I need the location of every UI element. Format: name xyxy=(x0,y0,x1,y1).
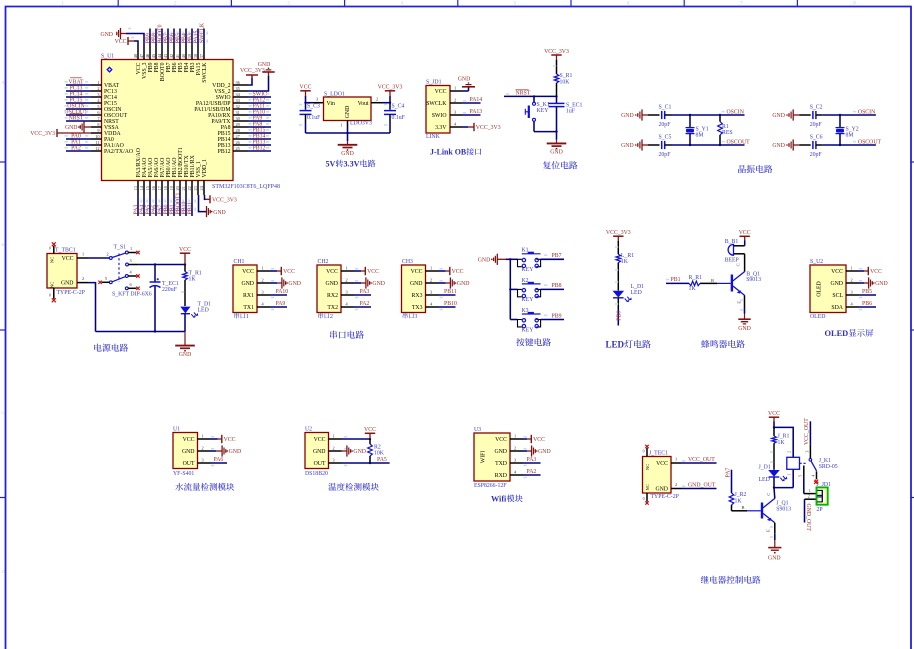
wire U1 pin 36 VDD_2 to VCC_3V3 xyxy=(248,75,252,85)
U1 pin 26 PB13 xyxy=(218,139,271,149)
U1 pin 28 PB15 xyxy=(218,127,271,137)
svg-text:8: 8 xyxy=(97,122,99,127)
svg-text:GND: GND xyxy=(241,281,254,287)
ground symbol at CH3 xyxy=(450,277,469,288)
wire U1 pin 48 VCC to VCC port xyxy=(128,38,138,45)
U1 pin 14 PA4/AO xyxy=(139,158,148,216)
svg-text:PB9: PB9 xyxy=(552,313,562,319)
capacitor S_EC1 1uF xyxy=(549,96,583,132)
svg-text:20pF: 20pF xyxy=(810,122,823,128)
svg-text:45: 45 xyxy=(151,54,156,58)
U1 pin 36 VDD_2 xyxy=(212,80,248,89)
svg-text:1: 1 xyxy=(851,266,853,271)
svg-text:S_C1: S_C1 xyxy=(659,105,672,111)
power port VCC (5V to 3.3V circuit) xyxy=(300,85,312,96)
svg-text:NC: NC xyxy=(645,464,650,470)
svg-text:U1: U1 xyxy=(173,427,180,433)
connector S_JD1 LINK (J-Link OB) xyxy=(426,80,462,140)
svg-text:PB0: PB0 xyxy=(616,311,622,321)
wire S_U2 pin 3 net PB5 xyxy=(859,289,877,298)
U1 pin 10 PA0 xyxy=(65,133,114,143)
resistor T_R1 1K xyxy=(181,265,202,307)
svg-text:8M: 8M xyxy=(696,133,704,139)
wire U1 pin 1 to VCC xyxy=(211,437,222,439)
title J-Link OB interface xyxy=(430,148,481,157)
svg-text:5: 5 xyxy=(105,276,107,281)
svg-text:GND: GND xyxy=(325,281,338,287)
U1 pin 16 PA6/AO xyxy=(151,158,160,216)
U1 pin 11 PA1/AO xyxy=(65,139,124,149)
svg-text:PB8: PB8 xyxy=(552,283,562,289)
wire VCC node (relay) xyxy=(773,422,793,458)
svg-text:GND: GND xyxy=(288,281,301,287)
svg-text:LINK: LINK xyxy=(426,134,441,140)
svg-text:S_LDO1: S_LDO1 xyxy=(324,91,345,97)
svg-text:ESP8266-12F: ESP8266-12F xyxy=(474,483,507,489)
power port VCC_3V3 (reset circuit) xyxy=(544,49,569,60)
title relay control circuit xyxy=(701,576,761,584)
capacitor T_EC1 220uF xyxy=(150,265,179,333)
svg-text:S_K1: S_K1 xyxy=(537,102,550,108)
svg-text:29: 29 xyxy=(236,122,240,127)
svg-text:VCC: VCC xyxy=(495,437,507,443)
svg-text:VCC_3V3: VCC_3V3 xyxy=(378,85,403,91)
svg-text:E: E xyxy=(736,301,741,304)
wire K2 to net PB8 xyxy=(541,283,564,289)
svg-text:PB12: PB12 xyxy=(253,145,266,151)
svg-text:PA14: PA14 xyxy=(470,97,483,103)
svg-text:38: 38 xyxy=(193,54,198,58)
U1 pin 5 OSCIN xyxy=(65,103,123,113)
svg-text:VCC: VCC xyxy=(314,437,326,443)
power port VCC_3V3 (LED circuit) xyxy=(606,230,631,241)
U1 pin 44 BOOT0 xyxy=(157,24,166,81)
svg-text:DS18B20: DS18B20 xyxy=(305,471,328,477)
svg-text:1: 1 xyxy=(82,252,84,257)
svg-text:A: A xyxy=(1,81,5,86)
ground symbol at S_U2 xyxy=(869,277,888,288)
svg-text:J_TEC1: J_TEC1 xyxy=(649,451,668,457)
title OLED display xyxy=(825,329,874,338)
U1 pin 25 PB12 xyxy=(218,145,271,155)
svg-text:PB5: PB5 xyxy=(862,289,872,295)
svg-text:42: 42 xyxy=(169,54,174,58)
svg-text:0.1uF: 0.1uF xyxy=(392,115,406,121)
transistor J_Q1 S9013 xyxy=(762,493,791,532)
U1 pin 15 PA5/AO xyxy=(145,158,154,216)
svg-text:B: B xyxy=(711,278,714,283)
svg-text:TYPE-C-2P: TYPE-C-2P xyxy=(57,290,85,296)
svg-text:9: 9 xyxy=(97,128,99,133)
svg-text:1: 1 xyxy=(454,86,456,91)
wire CH3 pin 4 net PB10 xyxy=(439,301,457,310)
svg-text:VCC: VCC xyxy=(533,437,545,443)
svg-text:S_U2: S_U2 xyxy=(810,259,823,265)
svg-text:GND: GND xyxy=(772,143,785,149)
wire LDO ground rail xyxy=(306,132,391,134)
svg-text:LDO3V3: LDO3V3 xyxy=(350,120,372,126)
svg-text:0: 0 xyxy=(49,294,51,298)
svg-text:PA3: PA3 xyxy=(527,457,537,463)
U1 pin 41 PB5 xyxy=(175,29,184,73)
svg-text:GND_OUT: GND_OUT xyxy=(805,504,811,532)
power port VCC_3V3 at U1 pin 24 xyxy=(210,195,237,203)
connector J_JD1 2P (green terminal) xyxy=(817,482,832,513)
svg-text:GND: GND xyxy=(100,32,113,38)
svg-text:SWCLK: SWCLK xyxy=(202,62,208,83)
resistor R1 RES (crystal 1) xyxy=(718,114,733,146)
power port VCC at U3 xyxy=(531,435,545,443)
U1 pin 48 VCC xyxy=(133,45,142,75)
wire J_D1 to Q1 collector node xyxy=(773,469,793,498)
title 5V to 3.3V circuit xyxy=(326,160,376,169)
svg-text:WIFI: WIFI xyxy=(481,451,487,464)
svg-text:GND: GND xyxy=(345,106,351,119)
svg-text:CH3: CH3 xyxy=(402,259,413,265)
svg-text:3.3V: 3.3V xyxy=(344,160,360,169)
svg-text:SRD-05: SRD-05 xyxy=(819,464,838,470)
wire key bus xyxy=(506,258,511,319)
no-ERC marker at T_S1 pin 6 xyxy=(136,287,139,290)
U1 pin 3 PC14 xyxy=(65,91,117,101)
svg-text:OUT: OUT xyxy=(314,461,326,467)
svg-text:PB10: PB10 xyxy=(444,301,457,307)
wire U2 pin 2 to GND xyxy=(342,449,348,451)
svg-text:S_C3: S_C3 xyxy=(307,103,320,109)
U1 pin 13 PA3/RX/AO xyxy=(133,148,142,216)
svg-text:39: 39 xyxy=(187,54,192,58)
svg-text:25: 25 xyxy=(236,146,240,151)
svg-text:T_TBC1: T_TBC1 xyxy=(55,247,76,253)
U1 pin 23 VSS_1 xyxy=(193,161,202,195)
capacitor S_C2 20pF with ground (crystal 2 OSCIN) xyxy=(772,105,876,128)
svg-text:GND: GND xyxy=(494,449,507,455)
svg-text:2: 2 xyxy=(97,86,99,91)
title buzzer circuit xyxy=(701,340,745,348)
ground symbol at U1 pin 8 VSSA xyxy=(65,121,91,132)
no-ERC marker at J_TEC1 top xyxy=(645,445,648,448)
connector T_TBC1 TYPE-C-2P xyxy=(47,246,85,299)
power port VCC at CH1 xyxy=(281,267,295,275)
wire S_LDO1 GND pin 1 xyxy=(340,121,348,135)
svg-text:3: 3 xyxy=(130,258,132,263)
crystal S_Y2 8M xyxy=(836,114,859,146)
svg-text:3: 3 xyxy=(346,290,348,295)
LED L_D1 xyxy=(613,284,645,302)
svg-text:TXD: TXD xyxy=(495,461,507,467)
svg-text:1K: 1K xyxy=(621,259,629,265)
svg-text:OLED: OLED xyxy=(825,329,849,338)
svg-text:GND: GND xyxy=(550,150,563,156)
svg-text:GND: GND xyxy=(410,281,423,287)
U1 pin 12 PA2/TX/AO xyxy=(65,145,134,155)
wire L_R1 to L_D1 xyxy=(615,263,618,291)
switch T_S1 S_KFT DIP-6X6 xyxy=(102,244,152,297)
wire CH1 pin 4 net PA9 xyxy=(270,301,287,310)
wire LED to ground rail xyxy=(184,314,186,332)
U1 pin 47 VSS_3 xyxy=(139,45,148,79)
svg-text:PB1: PB1 xyxy=(671,277,681,283)
svg-text:1K: 1K xyxy=(778,440,786,446)
svg-text:VCC: VCC xyxy=(179,247,191,253)
push button K3 KEY xyxy=(510,308,540,333)
svg-text:VCC_3V3: VCC_3V3 xyxy=(476,125,501,131)
svg-text:2: 2 xyxy=(454,98,456,103)
svg-text:10K: 10K xyxy=(374,451,385,457)
svg-text:1: 1 xyxy=(346,266,348,271)
wire T_S1 pin 3 to VCC node xyxy=(138,263,186,265)
svg-text:10: 10 xyxy=(95,134,99,139)
ground symbol at U1 YF-S401 xyxy=(222,445,241,456)
capacitor S_C3 0.1uF xyxy=(299,103,321,133)
svg-text:0: 0 xyxy=(643,449,645,453)
svg-text:J_R2: J_R2 xyxy=(735,492,747,498)
svg-text:5: 5 xyxy=(799,475,803,477)
svg-text:VCC: VCC xyxy=(326,269,338,275)
LED T_D1 xyxy=(180,301,211,317)
svg-text:2: 2 xyxy=(262,278,264,283)
svg-text:31: 31 xyxy=(236,110,240,115)
svg-text:2: 2 xyxy=(346,278,348,283)
wire relay pin 5 to J_JD1 pin 1 xyxy=(799,466,818,494)
svg-text:35: 35 xyxy=(236,86,240,91)
power port VCC (relay circuit) xyxy=(768,411,780,422)
wire L_D1 to net PB0 xyxy=(615,298,622,326)
svg-text:GND: GND xyxy=(738,326,751,332)
designator label 串口1 xyxy=(234,313,249,320)
wire U3 pin 2 to GND xyxy=(523,449,532,451)
title temperature detection module xyxy=(328,483,379,491)
ground symbol at U2 DS18B20 xyxy=(347,445,366,456)
svg-text:C: C xyxy=(766,493,771,496)
wire U1 pin 35 VSS_2 to GND xyxy=(248,72,269,91)
ground symbol GND (key circuit) xyxy=(478,254,506,265)
wire VCC_3V3 to S_R1 xyxy=(553,60,557,74)
wire CH2 pin 2 to GND xyxy=(354,281,366,283)
U1 pin 38 PA15 xyxy=(193,29,202,76)
svg-text:STM32F103C8T6_LQFP48: STM32F103C8T6_LQFP48 xyxy=(212,184,280,190)
svg-text:S_C6: S_C6 xyxy=(810,135,823,141)
svg-text:NC: NC xyxy=(49,257,54,263)
svg-text:SWIO: SWIO xyxy=(432,113,447,119)
svg-text:SDA: SDA xyxy=(831,305,843,311)
U1 pin 18 PB0/AO xyxy=(163,158,172,216)
svg-text:K2: K2 xyxy=(522,278,529,284)
svg-text:VCC_OUT: VCC_OUT xyxy=(804,418,810,445)
svg-text:PB6: PB6 xyxy=(862,301,872,307)
svg-text:4: 4 xyxy=(811,475,815,477)
svg-text:VDD_1: VDD_1 xyxy=(202,159,208,177)
svg-text:GND: GND xyxy=(61,281,74,287)
svg-text:SWCLK: SWCLK xyxy=(426,101,447,107)
svg-text:30: 30 xyxy=(236,116,240,121)
svg-text:BEEP: BEEP xyxy=(725,257,739,263)
wire U2 pin 1 to VCC node xyxy=(342,437,372,440)
ground symbol at U1 pin 23 xyxy=(207,206,226,217)
svg-text:5V: 5V xyxy=(326,160,336,169)
buzzer B_B1 BEEP xyxy=(725,239,739,263)
svg-text:GND: GND xyxy=(353,449,366,455)
svg-text:VCC_3V3: VCC_3V3 xyxy=(212,198,237,204)
svg-text:3: 3 xyxy=(316,97,318,102)
wire CH1 pin 3 net PA10 xyxy=(270,289,288,298)
U1 pin 29 PA8 xyxy=(221,121,271,131)
svg-text:2: 2 xyxy=(82,276,84,281)
U1 pin 24 VDD_1 xyxy=(199,159,208,195)
wire VCC_3V3 to L_R1 xyxy=(615,241,618,254)
relay J_K1 SRD-05 coil xyxy=(787,451,838,476)
svg-text:GND: GND xyxy=(478,257,491,263)
svg-text:VCC_OUT: VCC_OUT xyxy=(688,457,715,463)
svg-text:VCC_3V3: VCC_3V3 xyxy=(606,230,631,236)
wire Q1 emitter to GND xyxy=(740,295,745,313)
svg-text:GND: GND xyxy=(458,77,471,83)
power port VCC at S_U2 xyxy=(868,267,882,275)
svg-text:GND: GND xyxy=(621,113,634,119)
svg-text:B: B xyxy=(742,505,745,510)
svg-text:GND_OUT: GND_OUT xyxy=(688,483,716,489)
power port VCC (temperature module) xyxy=(364,427,376,439)
capacitor S_C4 0.1uF xyxy=(384,103,406,133)
svg-text:1: 1 xyxy=(675,457,677,462)
svg-text:GND: GND xyxy=(457,281,470,287)
capacitor S_C6 20pF with ground (crystal 2 OSCOUT) xyxy=(772,135,881,158)
U1 pin 17 PA7/AO xyxy=(157,158,166,216)
wire K1 to net PB7 xyxy=(541,253,564,259)
svg-text:VCC: VCC xyxy=(300,85,312,91)
resistor R_R1 1K xyxy=(689,275,703,292)
svg-text:1: 1 xyxy=(809,489,811,493)
power port VCC_3V3 at U1 pin 36 xyxy=(240,68,265,78)
svg-text:LED: LED xyxy=(606,340,625,350)
svg-text:RX3: RX3 xyxy=(412,293,423,299)
svg-text:OUT: OUT xyxy=(183,461,195,467)
svg-text:48: 48 xyxy=(133,54,138,58)
wire S_JD1 pin 2 net PA14 xyxy=(462,97,482,103)
svg-text:U2: U2 xyxy=(305,427,312,433)
ground symbol GND (relay driver) xyxy=(768,540,781,562)
U1 pin 19 PB1/AO xyxy=(169,158,178,216)
svg-text:VCC: VCC xyxy=(367,269,379,275)
svg-text:1: 1 xyxy=(340,122,342,127)
svg-text:10K: 10K xyxy=(560,79,571,85)
svg-text:3.3V: 3.3V xyxy=(435,125,447,131)
designator label 串口2 xyxy=(318,313,333,320)
svg-text:22: 22 xyxy=(187,186,192,190)
svg-text:0: 0 xyxy=(49,247,51,251)
svg-text:OLED: OLED xyxy=(810,314,825,320)
svg-text:32: 32 xyxy=(236,104,240,109)
svg-text:PB11: PB11 xyxy=(187,202,193,215)
svg-text:20pF: 20pF xyxy=(810,152,823,158)
svg-text:3: 3 xyxy=(430,290,432,295)
svg-text:41: 41 xyxy=(175,54,180,58)
wire S_U2 pin 2 to GND xyxy=(859,281,869,283)
svg-text:2P: 2P xyxy=(817,507,823,513)
svg-text:VCC: VCC xyxy=(242,269,254,275)
U1 pin 8 VSSA xyxy=(91,122,120,131)
svg-text:28: 28 xyxy=(236,128,240,133)
wire U3 pin 1 to VCC xyxy=(523,437,531,439)
wire S_JD1 pin 3 net PA13 xyxy=(462,109,482,115)
wire U1 pin 24 VDD_1 to VCC_3V3 xyxy=(205,195,210,199)
svg-text:PA2: PA2 xyxy=(527,469,537,475)
title WiFi module xyxy=(491,495,523,504)
svg-text:PA13: PA13 xyxy=(470,109,483,115)
U1 pin 6 OSCOUT xyxy=(64,109,127,119)
wire T_TBC1 pin 1 VCC to switch xyxy=(77,252,109,258)
svg-text:PA9: PA9 xyxy=(276,301,286,307)
svg-text:VCC: VCC xyxy=(62,256,74,262)
wire power ground rail xyxy=(96,331,186,333)
svg-text:VCC: VCC xyxy=(452,269,464,275)
svg-text:S_C2: S_C2 xyxy=(810,105,823,111)
U1 pin 46 PB9 xyxy=(145,29,154,73)
svg-text:GND: GND xyxy=(655,487,668,493)
svg-text:OSCIN: OSCIN xyxy=(858,109,876,115)
svg-text:VCC: VCC xyxy=(831,269,843,275)
module U3 ESP8266-12F (WiFi) xyxy=(474,427,523,489)
wire CH3 pin 2 to GND xyxy=(439,281,451,283)
svg-text:20pF: 20pF xyxy=(659,122,672,128)
svg-text:3: 3 xyxy=(414,313,417,320)
wire net PA7 to J_R2 xyxy=(725,468,731,493)
svg-text:GND: GND xyxy=(179,352,192,358)
svg-text:PA3: PA3 xyxy=(360,289,370,295)
wire J_JD1 pin 2 net GND_OUT xyxy=(805,495,818,532)
capacitor S_C5 20pF with ground (crystal 1 OSCOUT) xyxy=(621,135,750,158)
wire Q1 collector to buzzer xyxy=(734,254,745,272)
no-ERC marker at T_S1 pin 5 xyxy=(98,281,101,284)
svg-text:2: 2 xyxy=(851,278,853,283)
wire S_U2 pin 1 to VCC xyxy=(859,269,869,271)
wire VCC node xyxy=(304,96,313,110)
wire U3 pin 3 TXD net PA3 xyxy=(523,457,541,466)
svg-text:K3: K3 xyxy=(522,308,529,314)
wire Q1 emitter to GND xyxy=(770,523,775,540)
svg-text:D: D xyxy=(1,570,5,575)
svg-text:GND: GND xyxy=(313,449,326,455)
wire CH2 pin 1 to VCC xyxy=(354,269,365,271)
resistor J_R2 1K xyxy=(729,492,746,505)
svg-text:S_R1: S_R1 xyxy=(560,73,573,79)
power port VCC_3V3 at U1 pin 9 VDDA xyxy=(30,129,91,137)
svg-text:T_S1: T_S1 xyxy=(114,244,127,250)
wire U2 pin 3 OUT net PA5 xyxy=(342,457,390,465)
wire relay common pin 3 net VCC_OUT xyxy=(804,418,810,459)
connector J_TEC1 TYPE-C-2P (relay power in) xyxy=(643,448,679,502)
svg-text:PA5: PA5 xyxy=(377,457,387,463)
module U2 DS18B20 (temperature sensor) xyxy=(305,427,342,477)
svg-text:3: 3 xyxy=(805,451,809,453)
svg-text:1: 1 xyxy=(514,434,516,439)
svg-text:GND: GND xyxy=(213,210,226,216)
wire K3 to net PB9 xyxy=(541,313,564,319)
power port VCC (buzzer) xyxy=(739,230,751,240)
U1 pin 32 PA11/USB/DM xyxy=(194,103,271,113)
LED J_D1 xyxy=(759,464,787,483)
title LED circuit xyxy=(606,340,651,350)
wire S_U2 pin 4 net PB6 xyxy=(859,301,877,310)
push button S_K1 KEY xyxy=(525,96,556,131)
svg-text:VCC_3V3: VCC_3V3 xyxy=(30,131,55,137)
wire J_TEC1 pin 1 net VCC_OUT xyxy=(671,457,717,463)
svg-text:S_JD1: S_JD1 xyxy=(426,80,442,86)
title reset circuit xyxy=(543,161,578,169)
svg-text:Wifi: Wifi xyxy=(491,495,507,504)
U1 pin 34 SWIO xyxy=(216,91,271,101)
svg-text:2: 2 xyxy=(202,446,204,451)
